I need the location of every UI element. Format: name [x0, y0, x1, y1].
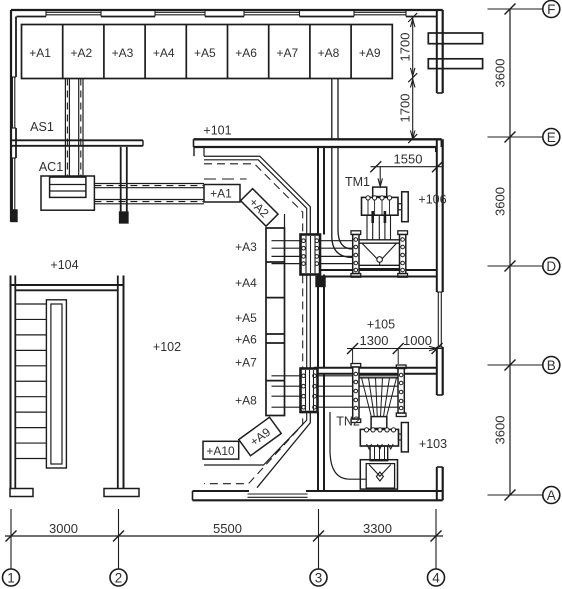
AC1 unit box [41, 176, 94, 210]
svg-text:+101: +101 [203, 124, 231, 138]
svg-text:1: 1 [7, 570, 15, 585]
svg-text:+A4: +A4 [235, 276, 257, 290]
TN2 connection plates and cables [351, 364, 406, 423]
TM1 cables [367, 211, 391, 240]
wall: B-grid wall of transformer room TN2 [314, 368, 437, 374]
wall: partition wall (+101 / transformer bays) [318, 147, 324, 491]
svg-text:+A7: +A7 [235, 356, 257, 370]
grid bubbles 1-4 [3, 569, 445, 586]
svg-text:3300: 3300 [363, 521, 392, 536]
label TM1 [345, 175, 370, 189]
svg-text:4: 4 [432, 570, 440, 585]
wall: stub below +101 wall left end [193, 147, 195, 156]
svg-text:+A6: +A6 [235, 46, 257, 60]
cable duct AC1 to +A1 [94, 184, 204, 204]
svg-text:+104: +104 [50, 258, 78, 272]
svg-text:+A3: +A3 [112, 46, 134, 60]
svg-text:+A4: +A4 [153, 46, 175, 60]
right dimension line 3600s [488, 4, 543, 501]
cabinet row +A1..+A9 [22, 25, 393, 79]
bottom dimension line 3000 5500 3300 [5, 509, 443, 569]
label +104 [50, 258, 78, 272]
svg-text:+A10: +A10 [206, 444, 235, 458]
dimension 1550 [370, 152, 443, 187]
svg-text:D: D [546, 259, 556, 274]
svg-text:E: E [547, 130, 556, 145]
svg-text:1300: 1300 [360, 333, 389, 348]
TN2 foundation [360, 460, 397, 489]
staircase block walls [10, 276, 139, 497]
svg-text:+A5: +A5 [194, 46, 216, 60]
svg-text:+A6: +A6 [235, 333, 257, 347]
label +102 [153, 340, 181, 354]
cable duct from +A2 to AC1 [65, 79, 83, 177]
svg-text:B: B [547, 358, 556, 373]
cabinet +A10 [203, 441, 239, 459]
feed cable curve TN2 [330, 412, 366, 479]
busbars +A8 to TN2 [272, 376, 399, 407]
transformer TN2 [360, 417, 408, 461]
cable channel along switchgear [204, 147, 310, 488]
dimension 1300 1000 [347, 333, 443, 364]
busbar outlets through right wall [428, 33, 482, 69]
TM1 foundation rails [351, 231, 408, 277]
svg-text:3: 3 [315, 570, 323, 585]
svg-text:+102: +102 [153, 340, 181, 354]
cabinet +A9 (45deg) [239, 417, 281, 456]
label TN2 [336, 415, 360, 429]
wall: right exterior wall upper segment (F to door) [437, 10, 443, 93]
switchgear column +A3..+A8 [235, 228, 284, 416]
wall: AC1 room right wall [120, 147, 129, 223]
wall: D-grid wall of transformer room TM1 [316, 270, 437, 287]
staircase treads and stringer [15, 300, 66, 468]
svg-text:+A2: +A2 [70, 46, 92, 60]
svg-text:3600: 3600 [493, 416, 508, 445]
label +103 [419, 437, 447, 451]
svg-text:+A5: +A5 [235, 311, 257, 325]
label +101 [203, 124, 231, 138]
svg-text:TM1: TM1 [345, 175, 370, 189]
dimension 1700 / 1700 vertical [398, 13, 418, 143]
grid bubbles F E D B A [543, 1, 560, 504]
svg-text:AS1: AS1 [30, 120, 54, 134]
svg-text:+105: +105 [367, 318, 395, 332]
label +105 [367, 318, 395, 332]
svg-text:+A8: +A8 [235, 394, 257, 408]
svg-text:1700: 1700 [398, 94, 413, 123]
svg-text:+A8: +A8 [318, 46, 340, 60]
svg-text:1000: 1000 [403, 333, 432, 348]
cabinet +A2 (45deg) [241, 189, 278, 226]
svg-text:+A7: +A7 [276, 46, 298, 60]
label AS1 [30, 120, 54, 134]
wall: bottom exterior wall [193, 491, 443, 500]
svg-text:+A1: +A1 [210, 187, 232, 201]
svg-text:A: A [547, 488, 556, 503]
label AC1 [39, 160, 63, 174]
svg-text:5500: 5500 [213, 521, 242, 536]
wall: E-grid interior wall (door gap at x143-193) [11, 139, 442, 152]
wall: top exterior wall with windows [11, 10, 443, 17]
svg-text:1700: 1700 [398, 33, 413, 62]
wall: right exterior wall mid segment with window [437, 139, 443, 395]
svg-text:2: 2 [115, 570, 123, 585]
wall: right exterior wall bottom segment [437, 467, 443, 500]
svg-text:TN2: TN2 [336, 415, 360, 429]
svg-text:+A1: +A1 [29, 46, 51, 60]
wall bushing block (B crossing) [301, 369, 318, 413]
wall: left exterior wall with windows [11, 10, 17, 222]
svg-text:+103: +103 [419, 437, 447, 451]
cabinet +A1 (corner run) [204, 185, 240, 203]
wall bushing block (D crossing) [301, 235, 321, 275]
svg-text:3600: 3600 [493, 59, 508, 88]
svg-text:F: F [547, 2, 555, 17]
svg-text:3000: 3000 [49, 521, 78, 536]
busbars +A3 to TM1 [272, 241, 353, 264]
HV run +A8 to TM1 [332, 79, 353, 258]
transformer TM1 [362, 187, 409, 222]
svg-text:+A9: +A9 [359, 46, 381, 60]
label +106 [418, 193, 446, 207]
svg-text:AC1: AC1 [39, 160, 63, 174]
svg-text:+106: +106 [418, 193, 446, 207]
svg-text:3600: 3600 [493, 187, 508, 216]
svg-text:+A3: +A3 [235, 240, 257, 254]
svg-text:1550: 1550 [394, 152, 423, 167]
